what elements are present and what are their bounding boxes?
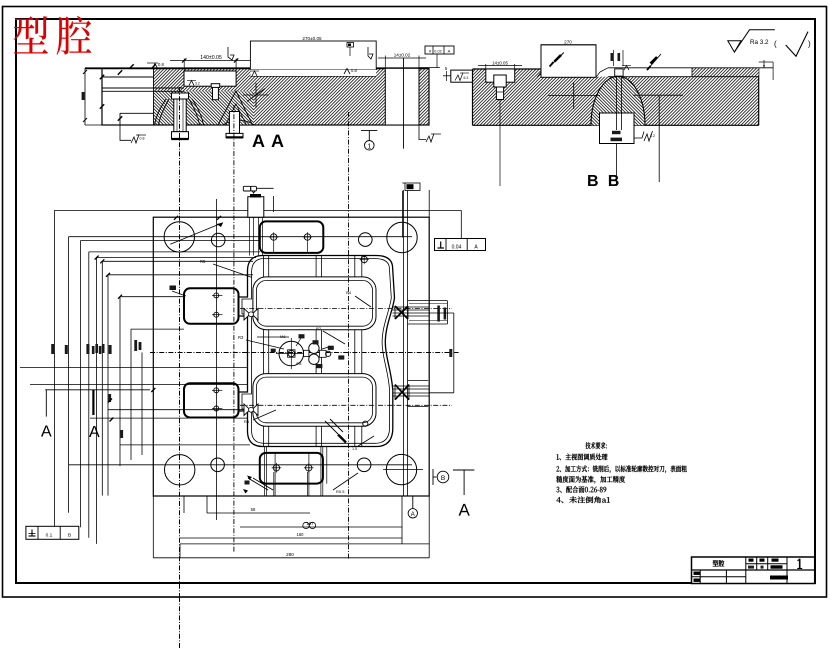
plan view left upper rounded rect [184, 288, 239, 324]
plan view datum A symbol [412, 496, 414, 509]
plan view lower gate lines [393, 385, 429, 387]
plan view sprue detail top [248, 197, 264, 218]
svg-text:A: A [448, 49, 451, 54]
section A-A large dimension box 270 [250, 41, 376, 70]
plan view gate bowtie lower [244, 404, 250, 416]
svg-text:6.3: 6.3 [464, 76, 469, 80]
section B-B gate box below [600, 113, 635, 144]
svg-text:58: 58 [251, 507, 256, 512]
svg-text:A: A [411, 512, 415, 518]
section B-B dimension block 270 top [541, 44, 596, 46]
svg-text:R3: R3 [238, 335, 244, 340]
plan view datum B symbol [432, 469, 434, 485]
title block frame [692, 557, 815, 584]
technical notes text [586, 442, 607, 449]
plan view upper gate dim box [408, 300, 448, 302]
plan view GDT frame right [435, 239, 486, 251]
svg-text:R0.5: R0.5 [336, 489, 345, 494]
plan view top dimension line [55, 209, 462, 211]
section A-A dimension 92 left [84, 68, 86, 125]
section A-A plate outline [102, 68, 429, 125]
section B-B body outline [472, 69, 474, 125]
section B-B crosshair right [633, 94, 683, 96]
section A-A GDT flag top right [425, 46, 454, 54]
title block texts [713, 560, 725, 567]
section A-A crosshair mark [243, 94, 269, 96]
plan view right section arrow A [453, 469, 474, 471]
plan view gate bowtie upper [244, 309, 250, 321]
plan view plate top tick marks [174, 216, 178, 220]
section B-B left protrusion [451, 70, 473, 82]
svg-text:270: 270 [564, 40, 572, 45]
plan view bottom circles line [69, 464, 412, 466]
svg-text:3.2: 3.2 [195, 82, 200, 86]
plan view upper gate X mark [395, 306, 408, 319]
plan view big circle center line bottom right [383, 469, 423, 471]
section A-A left block step lines [102, 76, 154, 78]
section B-B crosshair left [548, 94, 600, 96]
section A-A sprue bushing cone arcs [155, 99, 167, 125]
plan view molded part inner contour [242, 259, 391, 444]
section A-A bolt left [172, 93, 189, 99]
plan view vertical centerlines [179, 87, 181, 597]
plan view sprue columns into cavity [249, 217, 251, 255]
section B-B diagonal leader left [550, 53, 564, 67]
section A-A cone detail middle [218, 91, 253, 125]
plan view molded part outer contour [239, 256, 395, 447]
section label A A [252, 135, 283, 147]
plan view dim tick marks [108, 399, 112, 403]
section B-B pocket dim 14 [485, 64, 487, 69]
plan view bottom tiny circles on dim line [303, 522, 309, 528]
section A-A Ra mark mid top [344, 69, 350, 75]
plan view upper cavity rounded rect [253, 277, 376, 330]
plan view center boss circles [279, 341, 304, 366]
plan view lower gate ext box [408, 380, 429, 382]
circled numeral below A-A [361, 130, 377, 132]
section A-A insert hatch opposite direction [154, 91, 254, 125]
section A-A bolt right [229, 112, 239, 134]
plan view rib lines [262, 256, 264, 277]
section B-B dim above arch [613, 50, 615, 66]
svg-text:): ) [808, 40, 811, 49]
svg-text:B: B [441, 475, 445, 482]
section B-B hatched body [473, 77, 759, 126]
plan view left lower rounded rect [184, 383, 239, 417]
svg-text:1.5: 1.5 [352, 447, 357, 451]
section A-A tick mark left of box [228, 47, 234, 60]
section B-B sprue channel [615, 69, 623, 76]
plan view plate outline [153, 217, 429, 496]
svg-text:Ra 3.2: Ra 3.2 [750, 39, 769, 46]
plan view main horizontal centerline [150, 352, 460, 354]
svg-text:0.1: 0.1 [46, 533, 53, 539]
section label B B [588, 175, 619, 186]
section B-B thin top strip [692, 68, 759, 77]
section B-B diagonal leader right [647, 54, 661, 70]
section A-A Ra mark in pocket [189, 81, 194, 86]
plan view left dimension lines [54, 210, 56, 526]
plan view bottom dimension lines [207, 512, 310, 514]
svg-text:280: 280 [286, 552, 294, 557]
section A-A small pin [213, 87, 219, 100]
plan view extension lines below part [264, 447, 266, 497]
svg-text:1: 1 [367, 143, 371, 150]
plan view bottom cavity plate rounded rect [260, 453, 323, 484]
svg-text:0.8: 0.8 [158, 62, 164, 67]
plan view center leader labels [296, 338, 301, 346]
section A-A hatched plate body [154, 68, 386, 125]
red title 型腔 [14, 16, 48, 53]
plan view projection lines from sections [403, 190, 405, 496]
section A-A tick mark inside box right [368, 47, 373, 59]
plan view lower gate X mark [395, 385, 409, 400]
svg-text:R5: R5 [200, 259, 206, 264]
svg-text:0.8: 0.8 [140, 137, 145, 141]
section A-A slot cutout [385, 68, 419, 125]
section A-A Ra symbol below right [419, 126, 426, 140]
plan view small circles [361, 256, 367, 262]
plan view center side boss [304, 350, 309, 356]
plan view return pin circles [211, 233, 225, 247]
centerline crossing bottom border [179, 597, 181, 648]
plan view lower cavity rounded rect [253, 374, 376, 427]
section B-B Ra small top [624, 66, 629, 71]
svg-text:R4: R4 [346, 290, 352, 295]
plan view upper gate lines [393, 306, 430, 308]
plan view corner guide circles [164, 222, 194, 252]
svg-text:R5: R5 [244, 419, 250, 424]
svg-text:(: ( [774, 40, 777, 49]
svg-text:0.8: 0.8 [351, 68, 357, 73]
plan view leader labels [170, 223, 223, 245]
svg-text:160: 160 [297, 532, 305, 537]
section A-A slot dimension 14 [384, 56, 386, 69]
svg-text:0.02: 0.02 [434, 50, 441, 54]
section A-A pocket cutout [184, 71, 236, 86]
svg-text:Φ8: Φ8 [296, 361, 302, 366]
section B-B dome arch [591, 76, 645, 125]
svg-text:R2: R2 [316, 326, 322, 331]
section A-A dim ticks [100, 75, 104, 79]
section A-A Ra mark top-left [153, 64, 158, 69]
section B-B raised block [541, 45, 596, 78]
section A-A centerline flag [347, 43, 354, 48]
plan view balloon flag top right [405, 183, 420, 191]
plan view cavity centerlines [240, 308, 452, 310]
section B-B left edge dim arrow [443, 75, 451, 77]
plan view rotated dim labels left [51, 344, 54, 354]
section A-A Ra symbol below left [120, 126, 131, 141]
section B-B screw [494, 75, 506, 87]
svg-text:M6: M6 [280, 334, 286, 339]
svg-text:14±0.02: 14±0.02 [394, 53, 411, 58]
plan view right dimension N8 [429, 312, 454, 314]
plan view GDT frame bottom left [26, 526, 79, 539]
svg-text:14±0.05: 14±0.05 [492, 61, 508, 66]
plan view section cut line A-A marks [45, 389, 150, 391]
section A-A pocket dimension [183, 59, 185, 72]
svg-text:140±0.05: 140±0.05 [200, 55, 222, 61]
svg-text:0.04: 0.04 [452, 245, 462, 251]
surface roughness general note [728, 41, 741, 52]
svg-text:3.2: 3.2 [650, 134, 655, 138]
svg-text:270±0.05: 270±0.05 [302, 36, 322, 41]
plan view top cavity plate rounded rect [260, 221, 324, 253]
section B-B top pocket cutout [486, 69, 515, 82]
plan view left horizontal connector lines [69, 236, 412, 238]
section B-B Ra below gate box [634, 132, 644, 139]
svg-text:B: B [68, 533, 71, 539]
